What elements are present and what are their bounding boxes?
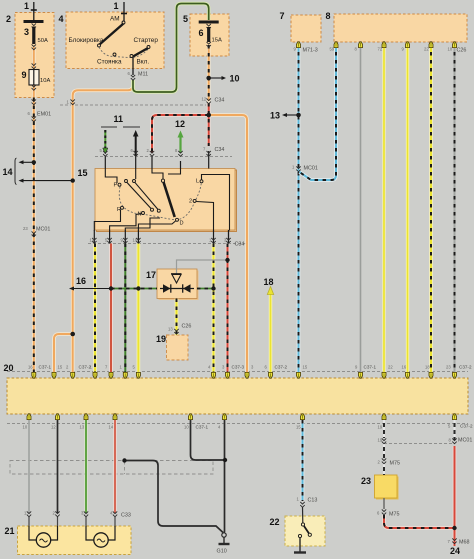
wire stub C13 into switch 22 bbox=[302, 507, 304, 523]
svg-text:19: 19 bbox=[378, 425, 383, 430]
svg-text:7: 7 bbox=[280, 11, 285, 21]
fuse ratings bbox=[38, 38, 222, 85]
svg-text:C37-3: C37-3 bbox=[232, 365, 245, 370]
svg-text:P: P bbox=[114, 183, 118, 189]
unit 8 pins bbox=[334, 42, 338, 48]
svg-text:50A: 50A bbox=[38, 38, 48, 44]
selector switch internals unit 15 bbox=[105, 169, 117, 184]
wire red-black junction down to C34 pin7 bbox=[207, 103, 211, 146]
svg-text:15: 15 bbox=[303, 365, 308, 370]
svg-text:MC01: MC01 bbox=[458, 438, 472, 444]
connector f chevron on orange wire bbox=[71, 99, 75, 104]
unit 19 bbox=[167, 335, 189, 360]
svg-text:MC01: MC01 bbox=[36, 227, 50, 233]
node 13 pointer bbox=[285, 114, 299, 116]
junction bus 20 bbox=[7, 378, 468, 414]
svg-text:23: 23 bbox=[361, 476, 371, 486]
node 14 bracket and arrows bbox=[15, 158, 17, 185]
chevrons C34 mid row bbox=[103, 151, 107, 156]
wire orange-black EM01/MC01 to bus pin1 bbox=[32, 98, 36, 373]
svg-text:23: 23 bbox=[23, 226, 28, 231]
node 10 pointer bbox=[209, 77, 222, 79]
svg-text:M75: M75 bbox=[390, 461, 401, 467]
wire black-white MC01 to M75 bbox=[383, 444, 385, 458]
diode module 17 bbox=[159, 271, 199, 301]
node 13 junction bbox=[296, 113, 301, 118]
wire stub C34 pin7 into box15 bbox=[208, 151, 210, 169]
node 16 line bbox=[72, 288, 111, 290]
svg-text:10: 10 bbox=[230, 74, 240, 84]
svg-text:15A: 15A bbox=[212, 38, 222, 44]
fuse F3 50A bbox=[24, 20, 44, 23]
ignition switch unit 4 bbox=[66, 12, 164, 69]
svg-text:13: 13 bbox=[270, 111, 280, 121]
unit 8 bbox=[334, 14, 467, 42]
wire stubs box15 bottom to C34 lower row bbox=[93, 230, 95, 244]
wire yellow C34 pin10 to bus bbox=[137, 244, 141, 373]
wire red-black C34 pin3 to bus bbox=[226, 244, 230, 373]
wire yellow unit8 to bus 2 bbox=[406, 44, 409, 372]
svg-text:17: 17 bbox=[146, 270, 156, 280]
wire blue-black below bus to C13 bbox=[301, 420, 305, 501]
svg-text:12: 12 bbox=[90, 238, 95, 243]
wire orange junction to right column bbox=[209, 115, 247, 372]
svg-text:16: 16 bbox=[28, 365, 33, 370]
svg-text:10A: 10A bbox=[40, 78, 50, 84]
wire green M11 to fuse 6 bbox=[133, 4, 209, 93]
junction gray to red-black bbox=[225, 258, 229, 262]
shield dashed box bottom left bbox=[10, 461, 213, 475]
connector M75 chevron lower bbox=[382, 509, 386, 514]
svg-text:C37-1: C37-1 bbox=[196, 425, 209, 430]
svg-text:M71-3: M71-3 bbox=[303, 48, 318, 54]
connector C34 chevron at y100 bbox=[207, 98, 211, 103]
svg-text:12: 12 bbox=[202, 97, 207, 102]
ground G10 bbox=[222, 533, 226, 537]
wire yellow unit8 to bus bbox=[383, 44, 386, 372]
wire orange M11 elbow down-left then down to bus bbox=[73, 80, 133, 372]
svg-text:Стоянка: Стоянка bbox=[97, 59, 122, 66]
svg-text:12: 12 bbox=[51, 425, 56, 430]
svg-text:3: 3 bbox=[24, 27, 29, 37]
wire black-white below bus right to MC01 bbox=[454, 420, 456, 440]
diode pair and zener in module 17 bbox=[160, 288, 194, 290]
wire green-black to diode module bbox=[111, 288, 157, 290]
svg-text:10: 10 bbox=[133, 238, 138, 243]
connector line C34 lower (y243.5) bbox=[88, 243, 247, 245]
svg-text:C37-2: C37-2 bbox=[459, 365, 472, 370]
wire stubs C34 mid row into box15 bbox=[104, 157, 106, 169]
wire fuse9 to box edge bbox=[32, 85, 36, 98]
wire gray-black unit8 to bus bbox=[454, 44, 456, 372]
bus pins top bbox=[32, 372, 36, 378]
wire orange-black fuse6 to junction C34 bbox=[207, 45, 211, 115]
svg-text:10: 10 bbox=[23, 425, 28, 430]
node 16 junction dots bbox=[109, 286, 113, 290]
unit 23 bbox=[376, 477, 399, 500]
wire 1 into fuse 3 bbox=[33, 2, 35, 20]
svg-text:6: 6 bbox=[199, 28, 204, 38]
wire yellow-black C34 pin12 to bus bbox=[93, 244, 97, 373]
svg-text:15: 15 bbox=[58, 365, 63, 370]
connector line above bus (y371.5) bbox=[7, 371, 468, 373]
fuse box unit 5 bbox=[190, 14, 229, 56]
unit 7 pin bbox=[297, 42, 301, 48]
lamp unit 21 bbox=[18, 526, 132, 555]
connector C33 chevrons bbox=[27, 511, 31, 516]
wire arrow 11 green-black down bbox=[104, 130, 106, 149]
svg-text:1: 1 bbox=[24, 1, 29, 11]
svg-text:C37-2: C37-2 bbox=[460, 424, 473, 429]
wire red-black jog to C34 pin2 bbox=[152, 115, 209, 153]
lamp 1 in unit 21 bbox=[36, 533, 50, 547]
wire black bus to ground elbow 1 bbox=[191, 420, 226, 460]
svg-text:M68: M68 bbox=[459, 540, 470, 546]
svg-text:L: L bbox=[196, 179, 199, 185]
wire red C34 pin5 to bus bbox=[109, 244, 113, 373]
wire yellow-black unit8 to bus bbox=[429, 44, 433, 372]
wire gray unit8 to bus bbox=[360, 44, 362, 372]
wire black shield junction to ground bbox=[125, 461, 224, 533]
svg-text:10: 10 bbox=[448, 47, 453, 52]
wire black below bus to C33 pin2 bbox=[57, 420, 59, 513]
wire blue-black unit8 pin to MC01 jog bbox=[300, 44, 337, 180]
connector line C34 mid (y156.5) bbox=[95, 156, 232, 158]
switch unit 22 bbox=[285, 516, 325, 546]
svg-text:59: 59 bbox=[330, 47, 335, 52]
wire red MC01 to M68 bbox=[453, 446, 457, 546]
svg-text:Стартер: Стартер bbox=[134, 37, 159, 44]
svg-text:G10: G10 bbox=[217, 549, 227, 555]
node 10 junction bbox=[206, 76, 211, 81]
wire orange branch to bus pin2 bbox=[54, 334, 73, 372]
svg-text:22: 22 bbox=[388, 365, 393, 370]
connector MC01 chevrons bottom right bbox=[382, 438, 386, 443]
svg-text:C37-1: C37-1 bbox=[364, 365, 377, 370]
wire arrow 12 green up bbox=[179, 136, 181, 153]
svg-text:15: 15 bbox=[78, 168, 88, 178]
connector C13 chevron bbox=[300, 502, 304, 507]
svg-text:MC01: MC01 bbox=[304, 166, 318, 172]
wire red below bus to C33 pin4 bbox=[113, 420, 116, 513]
connector line MC01 bottom right (y443.5) bbox=[384, 443, 455, 445]
svg-text:N: N bbox=[138, 212, 142, 218]
fuse F6 15A bbox=[199, 21, 219, 24]
svg-text:AM: AM bbox=[110, 16, 120, 23]
svg-text:13: 13 bbox=[168, 327, 173, 332]
wire yellow arrow 18 to bus bbox=[269, 292, 272, 372]
svg-text:C34: C34 bbox=[215, 147, 225, 153]
svg-text:4: 4 bbox=[59, 14, 64, 24]
svg-text:2: 2 bbox=[6, 14, 11, 24]
wire yellow-black C34 pin1 to bus bbox=[212, 244, 216, 373]
wire green below bus to C33 pin3 bbox=[85, 420, 88, 513]
svg-text:C33: C33 bbox=[121, 513, 131, 519]
svg-text:18: 18 bbox=[425, 365, 430, 370]
svg-text:C37-1: C37-1 bbox=[39, 365, 52, 370]
svg-text:9: 9 bbox=[22, 70, 27, 80]
connector EM01 chevron bbox=[32, 99, 36, 104]
svg-text:22: 22 bbox=[270, 517, 280, 527]
svg-text:C34: C34 bbox=[215, 98, 225, 104]
svg-text:16: 16 bbox=[76, 276, 86, 286]
svg-text:C26: C26 bbox=[457, 48, 467, 54]
wire stubs C33 to lamp unit bbox=[28, 517, 30, 526]
selector contact letters bbox=[114, 179, 200, 227]
connector MC01 chevron left bbox=[32, 231, 36, 236]
switch contacts unit 22 bbox=[301, 523, 304, 526]
svg-text:14: 14 bbox=[3, 167, 13, 177]
wire orange fuse3 to fuse9 bbox=[32, 47, 36, 69]
svg-text:8: 8 bbox=[326, 11, 331, 21]
svg-text:Вкл.: Вкл. bbox=[137, 59, 150, 66]
wire black bus through junction to ground bbox=[223, 420, 226, 533]
svg-text:22: 22 bbox=[424, 47, 429, 52]
svg-text:C13: C13 bbox=[308, 498, 318, 504]
wire gray below bus to C33 pin1 bbox=[28, 420, 30, 513]
wire black-white below bus to MC01 bbox=[383, 420, 385, 438]
svg-text:72: 72 bbox=[378, 47, 383, 52]
wire gray zener top to red-black wire bbox=[177, 260, 228, 274]
unit 7 bbox=[291, 15, 321, 42]
svg-text:15: 15 bbox=[296, 425, 301, 430]
svg-text:C37-2: C37-2 bbox=[275, 365, 288, 370]
svg-text:23: 23 bbox=[446, 365, 451, 370]
unit 4 labels bbox=[69, 16, 159, 66]
svg-text:20: 20 bbox=[4, 363, 14, 373]
svg-text:5: 5 bbox=[183, 14, 188, 24]
ignition switch contacts unit 4 bbox=[122, 21, 125, 24]
bus pins bottom bbox=[27, 414, 31, 420]
junction at C34 node bbox=[206, 113, 211, 118]
wire arrow 11 black up bbox=[135, 136, 137, 156]
connector line below bus (y423.5) bbox=[7, 423, 468, 425]
svg-text:21: 21 bbox=[5, 526, 15, 536]
wire yellow-black module 17 to C26 bbox=[175, 299, 179, 336]
wire black-white M75 to unit 23 bbox=[383, 464, 385, 475]
svg-text:R: R bbox=[117, 207, 121, 213]
connector M75 chevron upper bbox=[382, 458, 386, 463]
svg-text:12: 12 bbox=[175, 119, 185, 129]
svg-text:14: 14 bbox=[109, 425, 114, 430]
wire gray unit23 to M75 bbox=[383, 498, 385, 509]
svg-text:16: 16 bbox=[402, 365, 407, 370]
C37 labels above bus bbox=[39, 365, 473, 430]
svg-text:M75: M75 bbox=[389, 512, 400, 518]
svg-text:18: 18 bbox=[264, 277, 274, 287]
svg-text:10: 10 bbox=[184, 425, 189, 430]
wire switch Вкл to M11 bbox=[132, 57, 134, 75]
svg-text:C26: C26 bbox=[182, 324, 192, 330]
svg-text:13: 13 bbox=[80, 425, 85, 430]
svg-text:EM01: EM01 bbox=[37, 112, 51, 118]
ground below switch 22 bbox=[299, 546, 301, 552]
svg-text:1: 1 bbox=[114, 1, 119, 11]
lamp 2 in unit 21 bbox=[94, 533, 108, 547]
svg-text:D: D bbox=[180, 221, 184, 227]
connector line C34 upper (y105) bbox=[60, 104, 206, 106]
wire 1 into AM bbox=[123, 2, 125, 22]
wire red-black M75 to junction bbox=[384, 515, 455, 528]
svg-text:11: 11 bbox=[114, 114, 124, 124]
junction dots bottom bbox=[122, 458, 126, 462]
chevrons C34 lower row bbox=[92, 238, 96, 243]
connector M68 chevron bbox=[452, 538, 456, 543]
wire blue-black unit7 to bus (node 13, MC01) bbox=[297, 44, 301, 372]
svg-text:24: 24 bbox=[450, 546, 460, 556]
svg-text:19: 19 bbox=[378, 438, 383, 443]
wire green-black C34 pin9 to bus bbox=[124, 244, 126, 373]
connector MC01 chevron right bbox=[296, 166, 300, 171]
fuse box unit 2 bbox=[15, 13, 54, 98]
selector switch unit 15 bbox=[97, 170, 237, 232]
connector C26 chevron bbox=[174, 329, 178, 334]
fuse F9 10A bbox=[32, 63, 36, 68]
svg-text:C34: C34 bbox=[235, 242, 245, 248]
connector M11 chevron bbox=[131, 75, 135, 80]
bracket 11 bbox=[101, 126, 140, 128]
svg-text:Блокировка: Блокировка bbox=[69, 37, 104, 44]
junction orange branch bbox=[70, 332, 75, 337]
svg-text:19: 19 bbox=[156, 334, 166, 344]
wire green-black diode module to yellow-black wire bbox=[197, 288, 214, 290]
svg-text:2: 2 bbox=[189, 199, 192, 205]
svg-text:М11: М11 bbox=[138, 72, 148, 78]
